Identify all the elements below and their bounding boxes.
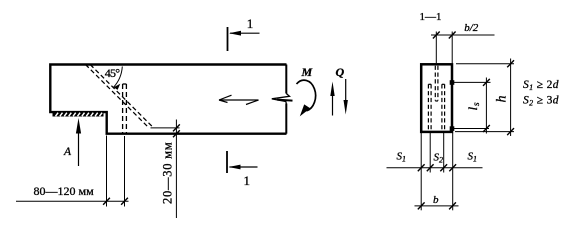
svg-text:S1: S1 bbox=[468, 151, 478, 164]
bearing pad (hatched support plate) bbox=[53, 112, 104, 116]
h dimension line bbox=[507, 59, 514, 137]
svg-text:A: A bbox=[63, 146, 72, 158]
svg-text:b: b bbox=[433, 194, 439, 206]
right inclined-bar pair (dashed, top cap) bbox=[442, 84, 445, 130]
svg-text:S1: S1 bbox=[397, 151, 407, 164]
svg-text:b/2: b/2 bbox=[464, 22, 479, 34]
section mark 1 (bottom) bbox=[226, 151, 228, 173]
S1 S2 S1 dimension line bbox=[387, 164, 483, 171]
ls dimension line bbox=[483, 78, 490, 134]
hanger stirrup (dashed double line with top cap) bbox=[123, 84, 127, 133]
inclined reinforcement bar (dashed double line, 45deg) bbox=[86, 65, 153, 128]
svg-text:20—30 мм: 20—30 мм bbox=[161, 142, 175, 204]
shear couple symbol inside beam bbox=[219, 95, 259, 104]
h/ls shared extension lines bbox=[455, 64, 514, 132]
svg-text:1—1: 1—1 bbox=[420, 11, 442, 23]
support reaction arrow A bbox=[76, 118, 81, 166]
svg-text:h: h bbox=[495, 96, 510, 103]
b/2 dimension line bbox=[431, 32, 495, 39]
svg-text:1: 1 bbox=[247, 16, 254, 31]
svg-text:S2: S2 bbox=[434, 152, 444, 165]
left inclined-bar pair (dashed, top cap) bbox=[428, 84, 431, 130]
beam right edge with break symbol bbox=[285, 65, 287, 134]
ls extension lines bbox=[453, 82, 491, 128]
section mark 1 (top) bbox=[227, 27, 229, 51]
svg-text:45°: 45° bbox=[105, 66, 120, 80]
hanger stirrup legs (central, dashed with bottom cap) bbox=[435, 66, 438, 101]
dimension line 20-30 mm (vertical) bbox=[173, 120, 180, 219]
svg-text:ls: ls bbox=[465, 102, 482, 111]
dimension line 80-120 mm bbox=[16, 198, 129, 205]
moment arrow M bbox=[297, 80, 316, 116]
b dimension line bbox=[415, 202, 459, 209]
b/2 extension lines bbox=[436, 32, 452, 64]
extension line from stirrup bbox=[124, 136, 126, 207]
45deg angle arc bbox=[113, 67, 122, 91]
section rectangle bbox=[421, 64, 452, 132]
shear force arrows Q bbox=[330, 79, 348, 116]
svg-text:Q: Q bbox=[336, 65, 345, 79]
svg-text:S2 ≥ 3d: S2 ≥ 3d bbox=[523, 94, 559, 107]
extension line at bent bar end level bbox=[151, 127, 180, 129]
svg-text:1: 1 bbox=[244, 173, 251, 188]
svg-text:S1 ≥ 2d: S1 ≥ 2d bbox=[523, 79, 559, 92]
svg-text:M: M bbox=[301, 65, 313, 79]
beam outline (dapped-end beam elevation) bbox=[50, 65, 286, 134]
S1/S2 extension lines below section bbox=[421, 133, 453, 210]
extension line from step corner bbox=[106, 136, 108, 207]
ls anchor marks on section edge bbox=[450, 80, 455, 131]
svg-text:80—120 мм: 80—120 мм bbox=[34, 184, 95, 198]
